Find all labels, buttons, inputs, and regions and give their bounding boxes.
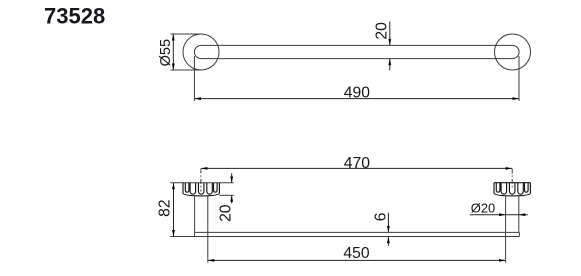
top view: right rosette (knurled cap) <box>494 183 530 196</box>
dimension 20 (cap height): dim lines with arrows <box>231 173 233 182</box>
svg-text:6: 6 <box>373 212 390 221</box>
dimension 20 (front view): label <box>374 22 391 40</box>
top view: left post stem <box>194 195 196 236</box>
dimension Ø20 (post diameter): leader line with arrows <box>470 214 528 216</box>
svg-text:20: 20 <box>218 204 235 222</box>
dimension 6 (bar wall offset): dim lines with arrows <box>387 213 389 232</box>
dimension 20 (cap height): label <box>218 204 235 222</box>
dimension 6: label <box>373 212 390 221</box>
svg-text:73528: 73528 <box>44 4 105 29</box>
dimension 82: dim line with arrows <box>173 183 175 236</box>
dimension Ø55: dim line with arrows <box>172 35 174 70</box>
svg-text:Ø55: Ø55 <box>158 39 174 66</box>
svg-text:470: 470 <box>344 155 370 172</box>
dimension Ø55: label <box>158 39 174 66</box>
dimension 490: dim line with arrows <box>195 98 519 100</box>
top view: right post stem <box>505 195 507 262</box>
svg-text:82: 82 <box>157 199 174 216</box>
top view: left rosette (knurled cap) <box>183 183 219 196</box>
front view: left flange circle <box>183 34 219 70</box>
svg-text:20: 20 <box>374 22 391 40</box>
top view: extension line at left cap bottom <box>219 194 233 196</box>
dimension 20 (bar diameter, front view): dim lines with arrows <box>389 22 391 45</box>
svg-text:Ø20: Ø20 <box>471 201 496 216</box>
dimension 82: label <box>157 199 174 216</box>
front view: right flange circle <box>495 34 531 70</box>
dimension Ø55: extension lines <box>171 33 203 35</box>
front view: bar (stadium outline) <box>194 45 519 58</box>
dimension 470: centerlines (dash-dot) <box>200 168 202 191</box>
top view: wall/extension line over left rosette <box>170 182 233 184</box>
svg-text:490: 490 <box>344 84 370 101</box>
dimension 490: extension lines <box>193 56 195 101</box>
top view: bar tube <box>195 231 520 233</box>
dimension 450: dim line with arrows <box>208 259 505 261</box>
svg-text:450: 450 <box>343 245 369 262</box>
dimension 470: dim line with arrows <box>201 167 511 169</box>
